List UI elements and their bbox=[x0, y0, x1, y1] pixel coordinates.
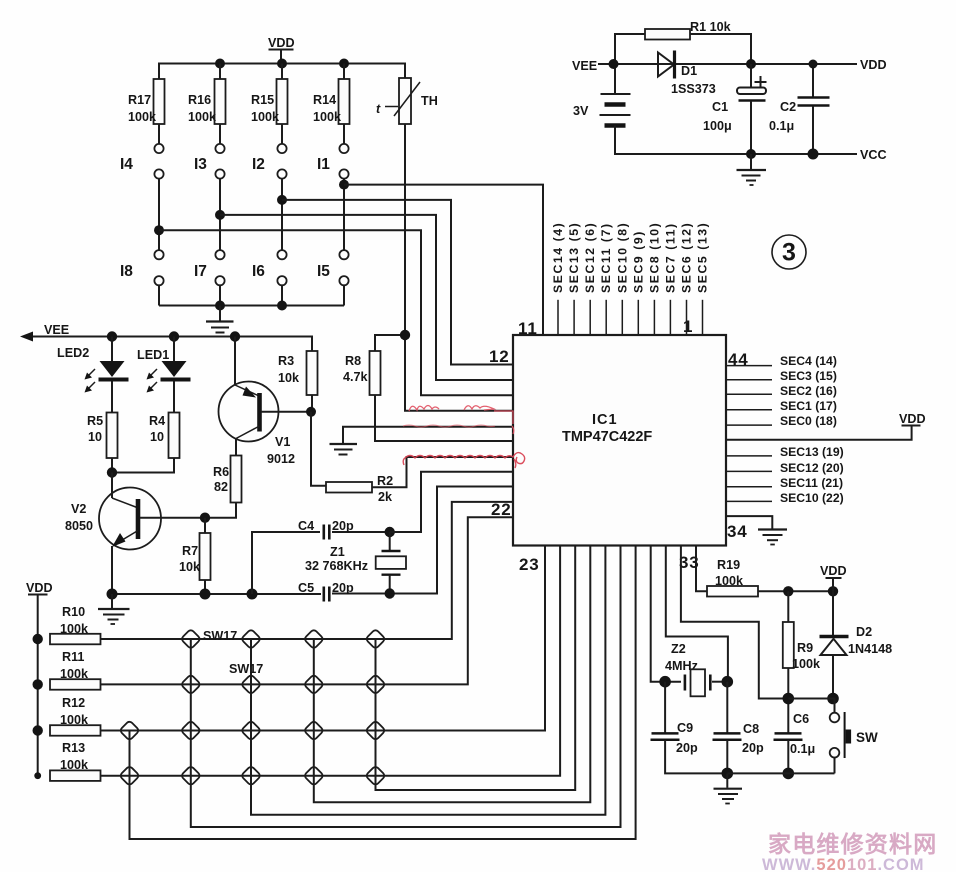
wire R12 row to IC pin 23 bbox=[101, 546, 546, 731]
svg-text:SEC13 (19): SEC13 (19) bbox=[780, 445, 844, 459]
resistor R2 bbox=[326, 474, 393, 504]
svg-text:C6: C6 bbox=[793, 712, 809, 726]
wire SW bottom to rail bbox=[834, 758, 836, 774]
svg-text:2k: 2k bbox=[378, 490, 393, 504]
svg-text:34: 34 bbox=[727, 522, 748, 541]
svg-text:SEC6 (12): SEC6 (12) bbox=[680, 222, 694, 293]
node junction bottom I6 bbox=[277, 301, 287, 311]
node junction R1-C1 bbox=[746, 59, 756, 69]
node junction I3 row bbox=[215, 210, 225, 220]
wire IC pin to R9 node bbox=[681, 546, 788, 699]
node junction I4 row bbox=[154, 225, 164, 235]
wire red marker scribble 1 bbox=[409, 406, 514, 435]
node junction R5 R4 bottom bbox=[107, 467, 117, 477]
resistor R10 bbox=[50, 605, 101, 644]
pin SEC11 top bbox=[599, 222, 613, 335]
svg-text:SEC5 (13): SEC5 (13) bbox=[696, 222, 710, 293]
node junction C2 bottom bbox=[808, 149, 819, 160]
resistor R16 bbox=[188, 64, 226, 144]
wire switch column 1 to IC bbox=[130, 546, 636, 840]
svg-text:10k: 10k bbox=[179, 560, 201, 574]
ground keypad bbox=[206, 306, 234, 333]
node junction R9 top bbox=[783, 586, 793, 596]
node junction C6 bottom bbox=[783, 768, 795, 780]
svg-text:3V: 3V bbox=[573, 104, 589, 118]
svg-text:V2: V2 bbox=[71, 502, 86, 516]
LED LED2 bbox=[57, 337, 129, 413]
svg-text:V1: V1 bbox=[275, 435, 290, 449]
svg-text:R16: R16 bbox=[188, 93, 211, 107]
svg-text:SEC12 (6): SEC12 (6) bbox=[583, 222, 597, 293]
resistor R9 bbox=[783, 591, 821, 698]
node junction R14 top bbox=[339, 59, 349, 69]
pin SEC12 right bbox=[726, 461, 844, 475]
svg-text:R9: R9 bbox=[797, 641, 813, 655]
node junction C2 top bbox=[809, 60, 818, 69]
node junction R15 top bbox=[277, 59, 287, 69]
svg-text:100k: 100k bbox=[60, 758, 89, 772]
transistor V1 bbox=[219, 337, 312, 467]
svg-text:32 768KHz: 32 768KHz bbox=[305, 559, 368, 573]
svg-text:20p: 20p bbox=[742, 741, 764, 755]
resistor R8 bbox=[343, 335, 513, 441]
svg-text:LED2: LED2 bbox=[57, 346, 89, 360]
svg-text:1: 1 bbox=[683, 317, 693, 336]
power VDD symbol right bbox=[820, 564, 847, 591]
svg-text:VDD: VDD bbox=[899, 412, 926, 426]
svg-text:VDD: VDD bbox=[820, 564, 847, 578]
svg-text:R3: R3 bbox=[278, 354, 294, 368]
svg-text:家电维修资料网: 家电维修资料网 bbox=[768, 831, 937, 857]
svg-text:I2: I2 bbox=[252, 156, 265, 173]
transistor V2 bbox=[65, 473, 237, 595]
capacitor C1 bbox=[703, 64, 767, 154]
capacitor C2 bbox=[769, 64, 830, 154]
wire switch column 5 to IC bbox=[376, 546, 576, 791]
svg-text:WWW.520101.COM: WWW.520101.COM bbox=[762, 856, 925, 872]
pin SEC14 top bbox=[551, 222, 565, 335]
pin SEC4 right bbox=[726, 354, 837, 368]
svg-text:R2: R2 bbox=[377, 474, 393, 488]
svg-text:C1: C1 bbox=[712, 100, 728, 114]
svg-text:VEE: VEE bbox=[44, 323, 69, 337]
node junction R16 top bbox=[215, 59, 225, 69]
node junction C4 rail bbox=[247, 589, 258, 600]
wire I3 row to IC bbox=[220, 215, 513, 380]
wire red marker scribble 3 bbox=[403, 453, 524, 468]
wire I2 row to IC pin 12 bbox=[282, 200, 513, 365]
svg-text:SEC13 (5): SEC13 (5) bbox=[567, 222, 581, 293]
node junction bottom I7 bbox=[215, 301, 225, 311]
pin SEC9 top bbox=[631, 230, 645, 335]
svg-text:SEC8 (10): SEC8 (10) bbox=[647, 222, 661, 293]
svg-text:C4: C4 bbox=[298, 519, 314, 533]
ground V2 emitter bbox=[98, 594, 130, 624]
node junction I1 row bbox=[339, 180, 349, 190]
svg-text:100μ: 100μ bbox=[703, 119, 732, 133]
node junction LED2 bbox=[107, 331, 117, 341]
resistor R7 bbox=[179, 518, 211, 594]
pin SEC2 right bbox=[726, 384, 837, 398]
svg-text:R1 10k: R1 10k bbox=[690, 20, 732, 34]
ground power bbox=[737, 154, 767, 185]
svg-text:1N4148: 1N4148 bbox=[848, 642, 892, 656]
pin SEC10 top bbox=[615, 222, 629, 335]
svg-text:R11: R11 bbox=[62, 650, 84, 664]
wire switch column 2 to IC bbox=[191, 546, 621, 828]
resistor R15 bbox=[251, 64, 288, 144]
svg-text:SEC0 (18): SEC0 (18) bbox=[780, 414, 837, 428]
op-amp U1 IC1 TMP47C422F body bbox=[513, 335, 726, 546]
svg-text:SEC7 (11): SEC7 (11) bbox=[663, 222, 677, 293]
resistor R1 bbox=[645, 29, 690, 40]
svg-text:100k: 100k bbox=[60, 622, 89, 636]
switch contacts column I1/I5 bbox=[339, 144, 348, 306]
svg-text:I3: I3 bbox=[194, 156, 207, 173]
svg-text:SEC11 (21): SEC11 (21) bbox=[780, 476, 843, 490]
svg-text:C8: C8 bbox=[743, 722, 759, 736]
ground bottom right bbox=[714, 773, 743, 803]
svg-text:R13: R13 bbox=[62, 741, 85, 755]
pin SEC5 top bbox=[696, 222, 710, 335]
svg-text:SEC3 (15): SEC3 (15) bbox=[780, 369, 837, 383]
wire battery top to R1 bbox=[615, 34, 751, 94]
wire switch column 4 to IC bbox=[314, 546, 591, 803]
svg-text:SW: SW bbox=[856, 730, 878, 745]
pin SEC1 right bbox=[726, 399, 837, 413]
svg-text:I4: I4 bbox=[120, 156, 133, 173]
ground pin 34 bbox=[726, 516, 787, 544]
capacitor C9 bbox=[651, 682, 728, 774]
node junction R3 V1 base bbox=[306, 407, 316, 417]
svg-text:SEC10 (22): SEC10 (22) bbox=[780, 491, 844, 505]
wire R2 to IC bbox=[372, 457, 513, 487]
node junction LED1 bbox=[169, 331, 179, 341]
svg-text:SEC9 (9): SEC9 (9) bbox=[631, 230, 645, 293]
wire R3 bottom to R2 bbox=[311, 412, 326, 486]
switch contacts column I2/I6 bbox=[277, 144, 286, 306]
svg-text:TMP47C422F: TMP47C422F bbox=[562, 429, 652, 445]
svg-text:10k: 10k bbox=[278, 371, 300, 385]
wire battery bottom bbox=[615, 126, 857, 155]
svg-text:3: 3 bbox=[782, 239, 796, 267]
wire VDD rail keypad bbox=[159, 64, 405, 80]
resistor R5 bbox=[87, 413, 118, 473]
svg-text:D1: D1 bbox=[681, 64, 697, 78]
svg-text:R15: R15 bbox=[251, 93, 274, 107]
svg-text:SEC11 (7): SEC11 (7) bbox=[599, 222, 613, 293]
wire R9 node to SW bbox=[788, 699, 834, 713]
svg-text:R7: R7 bbox=[182, 544, 198, 558]
svg-text:100k: 100k bbox=[792, 657, 821, 671]
svg-text:100k: 100k bbox=[188, 110, 217, 124]
svg-text:SW17: SW17 bbox=[203, 629, 237, 643]
resistor R14 bbox=[313, 64, 350, 144]
thermistor TH bbox=[376, 78, 438, 124]
node circled 3 bbox=[772, 235, 806, 269]
svg-text:SEC2 (16): SEC2 (16) bbox=[780, 384, 837, 398]
svg-text:SEC12 (20): SEC12 (20) bbox=[780, 461, 844, 475]
svg-text:SEC4 (14): SEC4 (14) bbox=[780, 354, 837, 368]
resistor R12 bbox=[50, 696, 101, 736]
crystal Z1 bbox=[305, 532, 406, 594]
capacitor C8 bbox=[713, 682, 765, 774]
crystal Z2 bbox=[661, 642, 728, 696]
node junction VEE-battery bbox=[609, 59, 619, 69]
svg-text:10: 10 bbox=[88, 430, 102, 444]
node junction VDD R10 bbox=[33, 634, 43, 644]
svg-text:11: 11 bbox=[518, 319, 538, 338]
switch SW pushbutton bbox=[830, 712, 878, 758]
svg-text:R5: R5 bbox=[87, 414, 103, 428]
node junction Z1 top bbox=[385, 527, 395, 537]
wire I4 row to IC bbox=[159, 230, 513, 395]
node junction I2 row bbox=[277, 195, 287, 205]
resistor R11 bbox=[50, 650, 101, 690]
resistor R13 bbox=[50, 741, 101, 781]
wire IC pin to Z2 right bbox=[666, 546, 728, 682]
switch matrix row2 bbox=[181, 674, 386, 694]
node junction Z2 left bbox=[659, 676, 671, 688]
svg-text:SEC1 (17): SEC1 (17) bbox=[780, 399, 837, 413]
svg-text:VDD: VDD bbox=[268, 36, 295, 50]
capacitor C4 bbox=[252, 519, 390, 594]
wire switch column 3 to IC bbox=[251, 546, 605, 815]
svg-text:I6: I6 bbox=[252, 263, 265, 280]
switch matrix row3 bbox=[119, 720, 385, 740]
svg-text:82: 82 bbox=[214, 480, 228, 494]
wire I1 row to IC pin 11 bbox=[344, 185, 543, 335]
wire IC VDD right bbox=[726, 412, 926, 440]
wire keypad bottom common bbox=[159, 305, 344, 307]
svg-text:20p: 20p bbox=[332, 519, 354, 533]
diode D1 bbox=[658, 51, 716, 97]
svg-text:R4: R4 bbox=[149, 414, 165, 428]
svg-text:R10: R10 bbox=[62, 605, 85, 619]
pin SEC13 top bbox=[567, 222, 581, 335]
switch matrix row4 bbox=[119, 766, 385, 786]
svg-text:IC1: IC1 bbox=[592, 412, 618, 428]
pin SEC6 top bbox=[680, 222, 694, 335]
diode D2 bbox=[820, 591, 893, 698]
switch contacts column I3/I7 bbox=[215, 144, 224, 306]
wire VEE rail with arrow bbox=[20, 332, 312, 352]
node junction VDD R13 bbox=[34, 772, 41, 779]
wire red marker scribble 2 bbox=[403, 425, 495, 427]
svg-text:10: 10 bbox=[150, 430, 164, 444]
svg-text:12: 12 bbox=[489, 347, 510, 366]
wire R11 row to IC pin 22 bbox=[101, 517, 514, 684]
wire R10 row to IC bbox=[101, 502, 514, 639]
ground mid bbox=[330, 427, 514, 455]
resistor R19 bbox=[707, 558, 833, 597]
switch matrix row1 bbox=[181, 629, 386, 649]
svg-text:R17: R17 bbox=[128, 93, 151, 107]
svg-text:23: 23 bbox=[519, 555, 540, 574]
node junction Z2 right bbox=[722, 676, 734, 688]
node junction C1 bottom bbox=[746, 149, 756, 159]
svg-text:R12: R12 bbox=[62, 696, 85, 710]
pin SEC12 top bbox=[583, 222, 597, 335]
pin SEC3 right bbox=[726, 369, 837, 383]
wire IC pin to Z2 left bbox=[651, 546, 661, 682]
svg-text:20p: 20p bbox=[676, 741, 698, 755]
wire TH column down to IC bbox=[405, 124, 513, 411]
svg-text:100k: 100k bbox=[128, 110, 157, 124]
capacitor C5 bbox=[298, 487, 513, 602]
pin SEC13 right bbox=[726, 445, 844, 459]
svg-text:100k: 100k bbox=[60, 713, 89, 727]
node junction V1 emitter bbox=[230, 331, 240, 341]
svg-text:0.1μ: 0.1μ bbox=[790, 742, 815, 756]
power VDD symbol top bbox=[268, 36, 295, 64]
pin SEC11 right bbox=[726, 476, 843, 490]
switch contacts column I4/I8 bbox=[154, 144, 163, 306]
svg-text:1SS373: 1SS373 bbox=[671, 82, 716, 96]
svg-text:D2: D2 bbox=[856, 625, 872, 639]
svg-text:SEC14 (4): SEC14 (4) bbox=[551, 222, 565, 293]
svg-text:9012: 9012 bbox=[267, 452, 295, 466]
svg-text:4.7k: 4.7k bbox=[343, 370, 369, 384]
power VDD symbol bottom left bbox=[26, 581, 53, 776]
svg-text:0.1μ: 0.1μ bbox=[769, 119, 794, 133]
wire IC pin 33 to R19 bbox=[696, 546, 707, 592]
resistor R3 bbox=[278, 351, 318, 412]
node junction C8 bottom bbox=[722, 768, 734, 780]
svg-text:100k: 100k bbox=[715, 574, 744, 588]
wire Z1 top to IC bbox=[390, 472, 513, 532]
svg-text:Z1: Z1 bbox=[330, 545, 345, 559]
svg-text:C9: C9 bbox=[677, 721, 693, 735]
svg-text:8050: 8050 bbox=[65, 519, 93, 533]
svg-text:SW17: SW17 bbox=[229, 662, 263, 676]
svg-text:R19: R19 bbox=[717, 558, 740, 572]
svg-text:R14: R14 bbox=[313, 93, 336, 107]
node junction V2 emitter rail bbox=[107, 589, 118, 600]
svg-text:VEE: VEE bbox=[572, 59, 597, 73]
svg-text:100k: 100k bbox=[251, 110, 280, 124]
node junction VDD R12 bbox=[33, 725, 43, 735]
pin SEC8 top bbox=[647, 222, 661, 335]
svg-text:R8: R8 bbox=[345, 354, 361, 368]
svg-text:I8: I8 bbox=[120, 263, 133, 280]
node junction D2 bottom bbox=[827, 693, 839, 705]
node junction VDD R11 bbox=[33, 679, 43, 689]
svg-text:20p: 20p bbox=[332, 581, 354, 595]
battery 3V bbox=[573, 94, 631, 126]
svg-text:100k: 100k bbox=[60, 667, 89, 681]
node junction R9 bottom bbox=[783, 693, 795, 705]
resistor R4 bbox=[112, 413, 180, 473]
svg-text:VDD: VDD bbox=[860, 58, 887, 72]
node junction V2 base R7 bbox=[200, 513, 210, 523]
svg-text:C5: C5 bbox=[298, 581, 314, 595]
svg-text:I1: I1 bbox=[317, 156, 330, 173]
svg-text:R6: R6 bbox=[213, 465, 229, 479]
svg-text:I5: I5 bbox=[317, 263, 330, 280]
wire R13 row to IC bbox=[101, 546, 561, 776]
LED LED1 bbox=[137, 337, 191, 413]
pin SEC0 right bbox=[726, 414, 837, 428]
svg-text:TH: TH bbox=[421, 94, 438, 108]
node junction D2 top VDD bbox=[828, 586, 838, 596]
svg-text:LED1: LED1 bbox=[137, 348, 169, 362]
svg-text:VCC: VCC bbox=[860, 148, 887, 162]
capacitor C6 bbox=[774, 699, 816, 774]
svg-text:100k: 100k bbox=[313, 110, 342, 124]
pin SEC7 top bbox=[663, 222, 677, 335]
svg-text:I7: I7 bbox=[194, 263, 207, 280]
svg-text:C2: C2 bbox=[780, 100, 796, 114]
resistor R17 bbox=[128, 79, 165, 144]
svg-text:SEC10 (8): SEC10 (8) bbox=[615, 222, 629, 293]
svg-text:Z2: Z2 bbox=[671, 642, 686, 656]
node junction Z1 bottom bbox=[385, 588, 395, 598]
node junction R7 rail bbox=[200, 589, 211, 600]
pin SEC10 right bbox=[726, 491, 844, 505]
wire VEE rail to VDD bbox=[598, 63, 857, 65]
node junction TH R8 bbox=[400, 330, 410, 340]
wire ground rail bottom left bbox=[112, 593, 321, 595]
resistor R6 bbox=[213, 456, 242, 518]
wire bottom rail right bbox=[727, 772, 834, 774]
svg-text:VDD: VDD bbox=[26, 581, 53, 595]
